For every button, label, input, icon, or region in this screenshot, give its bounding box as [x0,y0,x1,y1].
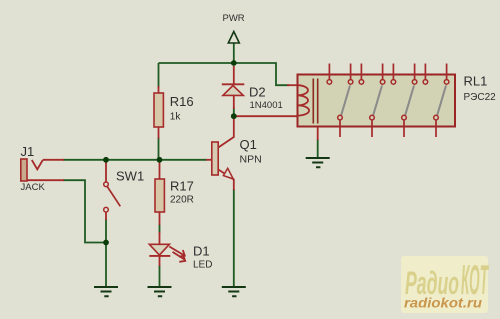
svg-text:РЭС22: РЭС22 [464,92,497,103]
svg-text:radiokot.ru: radiokot.ru [404,296,483,311]
svg-text:NPN: NPN [240,153,262,165]
svg-text:RL1: RL1 [464,74,488,89]
svg-text:SW1: SW1 [116,169,144,184]
svg-text:1k: 1k [170,111,182,122]
svg-text:R17: R17 [170,179,194,194]
svg-text:LED: LED [193,260,212,271]
svg-text:JACK: JACK [21,182,46,193]
svg-text:D2: D2 [249,85,266,100]
svg-text:Q1: Q1 [240,137,257,152]
svg-text:220R: 220R [170,195,194,206]
svg-text:D1: D1 [193,244,210,259]
svg-text:PWR: PWR [223,13,245,24]
svg-text:R16: R16 [170,94,194,109]
svg-text:J1: J1 [21,144,35,159]
svg-text:1N4001: 1N4001 [250,100,283,111]
